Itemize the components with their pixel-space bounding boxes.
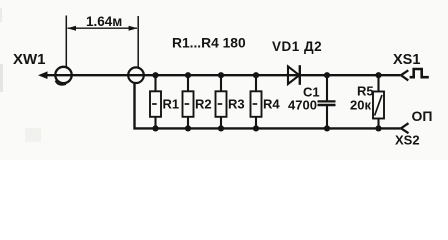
svg-text:XW1: XW1	[13, 51, 46, 68]
svg-text:XS1: XS1	[393, 52, 420, 68]
svg-text:R1: R1	[163, 97, 180, 112]
svg-text:R1...R4 180: R1...R4 180	[172, 36, 246, 51]
svg-text:R2: R2	[195, 97, 212, 112]
svg-text:R4: R4	[263, 97, 280, 112]
svg-text:VD1 Д2: VD1 Д2	[272, 39, 322, 54]
svg-text:R3: R3	[228, 97, 245, 112]
svg-text:4700: 4700	[288, 98, 317, 113]
svg-text:R5: R5	[357, 84, 374, 99]
svg-text:ОП: ОП	[412, 108, 433, 124]
svg-text:20к: 20к	[350, 98, 371, 113]
svg-text:XS2: XS2	[395, 133, 420, 148]
svg-text:1.64м: 1.64м	[86, 14, 122, 29]
